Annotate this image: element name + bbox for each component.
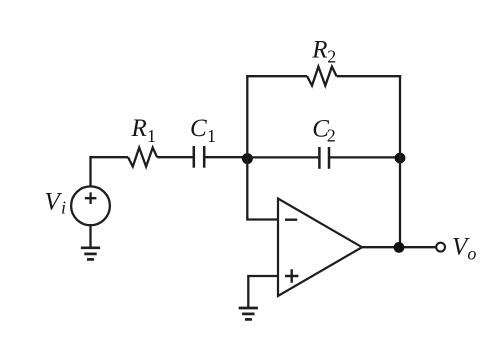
label C2	[312, 115, 336, 145]
wire: R1 to C1	[157, 156, 194, 158]
pin label: inverting input (minus)	[285, 218, 297, 220]
svg-text:o: o	[467, 244, 476, 264]
pin label: non-inverting input (plus)	[285, 269, 298, 282]
wire: Vi top up and right to R1	[91, 157, 129, 186]
wire: top rail left to R2	[246, 75, 307, 77]
node C (output junction dot)	[394, 242, 405, 253]
label Vi	[45, 188, 67, 217]
label C1	[190, 115, 216, 146]
wire: non-inverting input left and down to ground	[248, 276, 278, 308]
svg-text:R: R	[131, 115, 147, 142]
ground (below op-amp)	[239, 308, 258, 319]
node A (summing junction dot)	[242, 153, 253, 164]
svg-text:C: C	[190, 115, 207, 142]
wire: op-amp output to terminal	[362, 246, 436, 248]
svg-text:2: 2	[327, 125, 336, 145]
wire: feedback left vertical (node A up)	[246, 76, 248, 157]
wire: node A to C2	[247, 156, 319, 158]
wire: C1 to node A	[204, 156, 247, 158]
capacitor C1	[194, 146, 204, 168]
node B (dot on right rail)	[395, 153, 406, 164]
wire: C2 to node B	[329, 156, 400, 158]
wire: R2 to right rail corner	[337, 75, 402, 77]
resistor R2	[307, 67, 337, 86]
resistor R1	[128, 148, 157, 167]
label R2	[311, 36, 336, 66]
svg-text:1: 1	[207, 126, 216, 146]
capacitor C2	[319, 147, 329, 169]
wire: right vertical rail	[399, 75, 401, 247]
svg-text:1: 1	[147, 126, 156, 146]
ground (below Vi)	[81, 248, 100, 260]
terminal Vo (open circle)	[436, 243, 445, 252]
svg-text:V: V	[45, 188, 63, 215]
op-amp U1	[278, 199, 362, 297]
label Vo	[452, 234, 476, 264]
svg-text:i: i	[61, 197, 66, 217]
voltage source Vi	[71, 186, 110, 225]
label R1	[131, 115, 157, 146]
wire: node A down to inverting input	[247, 158, 278, 220]
svg-text:2: 2	[327, 47, 336, 67]
wire: Vi bottom to ground	[89, 226, 91, 248]
svg-text:R: R	[311, 36, 327, 63]
